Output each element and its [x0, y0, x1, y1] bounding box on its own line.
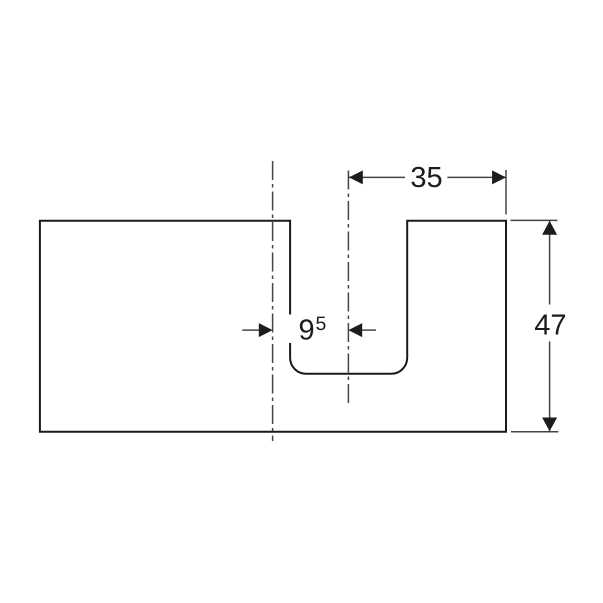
- arrowhead right of 35: [492, 170, 506, 184]
- countertop outline with U-shaped cutout: [40, 221, 506, 432]
- dimension line 35: [349, 176, 506, 178]
- dimension 9.5: right arrowhead pointing left: [348, 323, 362, 337]
- arrowhead left of 35: [349, 170, 363, 184]
- dimension 9.5: left arrowhead pointing right: [259, 323, 273, 337]
- dimension 9.5: right arrow tail: [362, 329, 376, 331]
- superscript 5 of label: [316, 317, 325, 331]
- extension line for dimension 35: [505, 170, 507, 214]
- centerline left (dash-dot): [272, 161, 274, 441]
- arrowhead top of 47: [542, 221, 557, 235]
- label 9 superscript 5: [289, 315, 332, 344]
- label 35: [405, 163, 447, 192]
- dimension 9.5: left arrow tail: [242, 329, 259, 331]
- arrowhead bottom of 47: [542, 418, 557, 432]
- label 47: [532, 305, 568, 342]
- extension line bottom for dimension 47: [511, 431, 558, 433]
- extension line top for dimension 47: [511, 219, 558, 221]
- centerline of cutout (dash-dot): [347, 167, 349, 403]
- dimension line 47: [549, 221, 551, 431]
